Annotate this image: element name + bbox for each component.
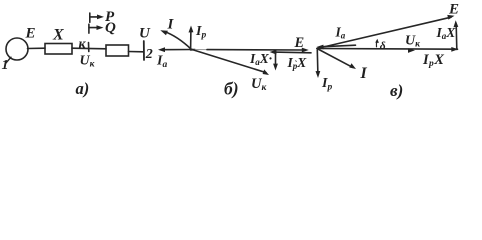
- vector Ip (diagram в): [316, 50, 319, 75]
- label E (diagram б): [294, 35, 305, 51]
- label Ip (diagram б): [195, 24, 206, 41]
- vector I (diagram в): [317, 49, 353, 68]
- label Uк (diagram б): [251, 76, 267, 93]
- label Ia (diagram в): [335, 25, 346, 41]
- label IpX (diagram в): [422, 52, 444, 69]
- label б) sub-figure: [224, 79, 239, 99]
- svg-text:I: I: [167, 17, 175, 33]
- Uк mid arrowhead (diagram в): [408, 48, 415, 53]
- vector IaX drop (diagram б): [275, 53, 277, 68]
- Q flow bracket tick: [88, 24, 90, 33]
- svg-text:I: I: [360, 65, 368, 82]
- svg-text:Q: Q: [105, 20, 116, 36]
- angle delta tick: [375, 41, 378, 47]
- vector I (diagram б): [164, 31, 193, 50]
- generator G1 (circle): [6, 38, 28, 60]
- label к (node K): [79, 37, 87, 52]
- svg-text:E: E: [294, 35, 305, 51]
- label X: [52, 27, 64, 44]
- IpX end arrowhead (diagram в): [451, 47, 458, 52]
- vector E axis line (diagram б): [192, 49, 195, 51]
- P flow bracket tick: [89, 13, 91, 22]
- label E (diagram в): [448, 2, 459, 18]
- svg-text:E: E: [25, 26, 36, 42]
- vector Ip (diagram б): [190, 30, 192, 50]
- svg-text:б): б): [224, 79, 239, 99]
- label IaX (diagram б): [249, 51, 272, 67]
- svg-text:а): а): [76, 79, 90, 98]
- svg-text:в): в): [390, 81, 403, 100]
- svg-text:2: 2: [145, 47, 153, 62]
- bus bar 2: [143, 41, 145, 60]
- label в) sub-figure: [390, 81, 403, 100]
- label 2 (bus): [145, 47, 153, 62]
- label 1 (generator): [2, 58, 9, 73]
- svg-text:IаX·: IаX·: [249, 51, 272, 67]
- label I (diagram в): [360, 65, 368, 82]
- Q flow arrow: [89, 27, 98, 29]
- vector IpX (diagram б): [274, 51, 312, 54]
- vector Ia (diagram в): [321, 45, 356, 47]
- label I (diagram б): [167, 17, 175, 33]
- wire generator to reactance X: [28, 47, 46, 49]
- pointer arrow from label 1 to generator: [6, 57, 12, 63]
- label E (EMF source): [25, 26, 36, 42]
- label IaX (diagram в): [436, 25, 457, 41]
- svg-text:U: U: [139, 26, 151, 42]
- svg-text:δ: δ: [380, 41, 386, 53]
- label Uк (voltage at K): [80, 54, 96, 70]
- svg-text:к: к: [79, 37, 87, 52]
- label а) sub-figure: [76, 79, 90, 98]
- svg-text:Iр̀X: Iр̀X: [287, 55, 308, 71]
- node K tick: [88, 43, 90, 52]
- wire load box to bus 2: [129, 51, 144, 53]
- reactance X (rectangle): [45, 44, 72, 55]
- label U (bus voltage): [139, 26, 151, 42]
- label IpX (diagram б): [287, 55, 308, 71]
- Uк axis line (diagram в): [317, 48, 458, 51]
- P flow arrow: [90, 16, 99, 18]
- label Q: [105, 20, 116, 36]
- svg-text:X: X: [52, 27, 64, 44]
- label P: [105, 9, 115, 25]
- label Uк (diagram в): [405, 34, 421, 50]
- label Ip (diagram в): [321, 76, 332, 93]
- svg-text:E: E: [448, 2, 459, 18]
- vector Uк (diagram б): [192, 50, 266, 73]
- label delta: [380, 41, 386, 53]
- wire X to second box through node K: [72, 47, 106, 50]
- vector IaX drop (diagram в): [455, 24, 458, 50]
- vector Ia (diagram б): [162, 49, 192, 51]
- label Ia (diagram б): [156, 54, 167, 71]
- vector E (diagram в): [317, 17, 451, 48]
- load box (second rectangle): [106, 45, 129, 56]
- svg-text:IаX: IаX: [436, 25, 457, 41]
